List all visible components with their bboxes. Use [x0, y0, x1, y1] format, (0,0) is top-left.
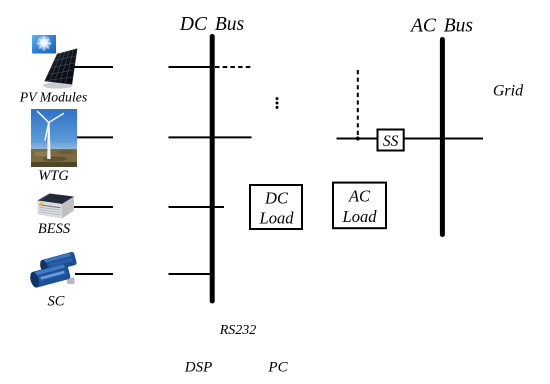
svg-text:RS232: RS232 [219, 323, 257, 338]
svg-text:DC Bus: DC Bus [179, 14, 244, 35]
SS static switch box [378, 130, 404, 151]
WTG source image [31, 109, 77, 167]
svg-text:SS: SS [383, 133, 399, 150]
SC source image [29, 251, 78, 288]
svg-text:PV Modules: PV Modules [19, 90, 88, 105]
converter U1 PV DC/DC [0, 0, 1, 1]
switch S2 to AC load [0, 0, 1, 1]
converter U2 WTG AC/DC [0, 0, 1, 1]
DC bus bar [210, 37, 215, 302]
svg-text:SC: SC [48, 294, 65, 310]
feedback line U1 to DSP [0, 0, 1, 1]
wire BESS to converter U3 [74, 206, 113, 208]
svg-text:PC: PC [267, 360, 288, 376]
AC Load box [333, 183, 386, 229]
svg-text:Load: Load [259, 209, 295, 228]
feedback line U2 to DSP [0, 0, 1, 1]
PC image [0, 0, 1, 1]
PV source image [32, 35, 77, 89]
inverter U5a DC/AC [0, 0, 1, 1]
node junction T2 output [356, 137, 360, 141]
svg-text:AC Bus: AC Bus [409, 16, 473, 37]
wire U4 output to DC bus [169, 273, 212, 275]
control line DSP to inverter U5a [0, 0, 1, 1]
control line DSP to SS [0, 0, 1, 1]
wire dashed T1 output down to T2 output node [357, 70, 359, 136]
switch S1 to DC load [0, 0, 1, 1]
svg-text:DSP: DSP [184, 360, 213, 376]
svg-text:WTG: WTG [38, 168, 69, 184]
control line DSP to inverter U5b [0, 0, 1, 1]
inverter U5b DC/AC [0, 0, 1, 1]
transformer T2 [0, 0, 1, 1]
feedback line U3 to DSP [0, 0, 1, 1]
DSP board image [0, 0, 1, 1]
svg-text:DC: DC [264, 189, 289, 208]
svg-text:BESS: BESS [38, 221, 71, 237]
AC bus bar [440, 40, 445, 235]
ellipsis dots between inverters [276, 97, 279, 109]
DC Load box [250, 185, 302, 229]
BESS source image [38, 194, 75, 219]
wire SS to AC bus to Grid [404, 138, 483, 140]
svg-text:Grid: Grid [493, 83, 524, 100]
transformer T1 [0, 0, 1, 1]
RS232 double arrow DSP to PC [0, 0, 1, 1]
svg-text:Load: Load [342, 207, 378, 226]
wire SC to converter U4 [75, 273, 113, 275]
wire WTG to converter U2 [77, 136, 113, 138]
Grid image [0, 0, 1, 1]
feedback line U4 to DSP [0, 0, 1, 1]
wire dashed DC bus to inverter U5a [215, 66, 252, 68]
wire U2 output through DC bus to inverter U5b [169, 136, 252, 138]
wire T2 output to SS [337, 138, 378, 140]
wire U1 output to DC bus [169, 66, 212, 68]
converter U4 SC DC/DC [0, 0, 1, 1]
wire PV panel to converter U1 [74, 66, 113, 68]
svg-text:AC: AC [348, 187, 371, 206]
converter U3 BESS DC/DC [0, 0, 1, 1]
wire U3 output to DC-load switch [169, 206, 225, 208]
